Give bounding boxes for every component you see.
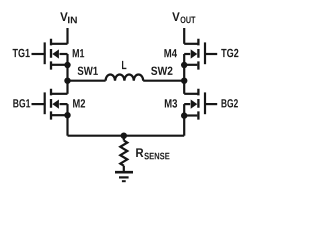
inductor L	[106, 74, 144, 80]
label RSENSE	[136, 148, 169, 159]
node M4 source junction	[181, 62, 187, 68]
label TG2	[221, 49, 238, 57]
label M3	[165, 99, 177, 107]
node SW1	[64, 78, 70, 84]
wire bottom rail	[68, 135, 185, 137]
node M1 source junction	[64, 62, 70, 68]
wire SW1 node to inductor	[68, 80, 106, 82]
wire M1 source to SW1	[66, 65, 68, 81]
wire VIN drop	[66, 28, 68, 44]
label BG2	[222, 99, 238, 107]
ground	[115, 172, 133, 181]
wire SW1 to M2 drain	[66, 81, 68, 94]
transistor M2	[32, 89, 68, 120]
label SW2	[151, 67, 172, 75]
node M3 source junction	[181, 112, 187, 118]
label TG1	[13, 49, 30, 57]
wire SW2 to M3 drain	[183, 81, 185, 94]
label M4	[164, 49, 177, 57]
wire M4 source to SW2	[183, 65, 185, 81]
transistor M1	[32, 39, 68, 70]
transistor M4	[184, 39, 217, 70]
label VOUT	[172, 12, 195, 23]
node SW2	[181, 78, 187, 84]
wire inductor to SW2 node	[143, 80, 184, 82]
label M1	[73, 49, 85, 57]
wire M3 source to rail	[183, 116, 185, 136]
label BG1	[13, 99, 30, 107]
transistor M3	[184, 89, 217, 120]
wire M2 source to rail	[66, 115, 68, 136]
node M2 source junction	[64, 112, 70, 118]
wire VOUT drop	[183, 28, 185, 44]
node RSENSE junction	[121, 133, 127, 139]
label L	[122, 61, 126, 69]
label VIN	[60, 12, 77, 23]
resistor RSENSE	[120, 136, 127, 171]
label SW1	[78, 67, 98, 75]
label M2	[73, 99, 85, 107]
